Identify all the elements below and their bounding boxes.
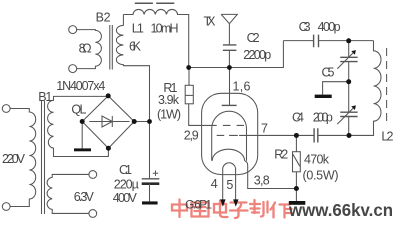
svg-text:G:6P1: G:6P1 <box>185 198 212 212</box>
junction node rail/C2/plate <box>227 65 232 70</box>
svg-text:220V: 220V <box>2 152 26 166</box>
junction node B+ <box>147 119 152 124</box>
transformer B1 HV secondary winding <box>48 96 109 156</box>
wire B+ rail <box>189 41 284 68</box>
capacitor C2 plates <box>223 45 237 50</box>
antenna TX <box>221 14 237 45</box>
tube grid g2 dashes <box>217 134 238 136</box>
heater arrow pin 5 <box>233 199 238 206</box>
svg-text:L1: L1 <box>132 22 144 36</box>
capacitor C1 plates <box>142 178 160 180</box>
char zi <box>230 203 248 219</box>
R2 inner diagonal <box>293 154 300 166</box>
tube grid g1 dashes <box>223 124 244 126</box>
svg-text:3,8: 3,8 <box>254 174 270 188</box>
char guo <box>192 203 209 217</box>
svg-text:5: 5 <box>226 178 233 192</box>
transformer B1 core <box>42 101 45 214</box>
svg-text:C5: C5 <box>322 66 335 80</box>
resistor R2 lead top <box>295 135 297 151</box>
junction node bridge bottom <box>106 146 111 151</box>
svg-text:R2: R2 <box>274 148 288 162</box>
tube plate bar <box>222 104 237 106</box>
wire R1 to grid <box>189 104 217 126</box>
transformer B2 secondary 6K <box>116 15 149 122</box>
L1 core bars <box>135 2 175 4</box>
tube heater <box>223 163 236 200</box>
tube plate pin 1,6 <box>229 68 231 106</box>
L2 dashed core <box>386 48 388 126</box>
variable capacitor C5 lower <box>348 82 350 112</box>
inductor L2 <box>349 41 381 136</box>
R1 inner bar <box>185 94 193 96</box>
junction node C3/C5/L2 top <box>346 38 351 43</box>
svg-text:400p: 400p <box>318 20 341 34</box>
svg-text:1,6: 1,6 <box>233 80 251 94</box>
ground bar C5 <box>315 95 332 98</box>
svg-text:220µ: 220µ <box>114 178 139 192</box>
svg-text:C4: C4 <box>292 111 304 125</box>
char zhong <box>172 200 187 218</box>
junction node cathode/R2 bottom <box>294 186 299 191</box>
C5 upper arrow <box>337 52 354 69</box>
svg-text:QL: QL <box>71 103 86 117</box>
svg-text:6K: 6K <box>129 40 142 54</box>
watermark chinese characters <box>172 200 292 219</box>
wire B+ vertical to C1 <box>149 122 151 179</box>
variable capacitor C5 upper <box>348 41 350 58</box>
svg-text:2200p: 2200p <box>243 48 271 62</box>
ground bar bridge <box>74 148 91 151</box>
svg-text:7: 7 <box>261 122 268 136</box>
tube beam arch <box>212 111 247 161</box>
char dian <box>214 201 228 218</box>
svg-text:B1: B1 <box>38 90 52 104</box>
junction node pin7/C4/R2 <box>294 133 299 138</box>
tube cathode dome <box>212 149 244 161</box>
svg-text:1N4007x4: 1N4007x4 <box>56 79 105 93</box>
wire C4 to tank node <box>318 134 349 136</box>
resistor R1 box <box>185 85 193 104</box>
cathode lead 3,8 <box>245 161 297 189</box>
inductor L1 10mH <box>123 9 188 67</box>
heater arrow pin 4 <box>220 199 225 206</box>
resistor R1 lead <box>188 68 190 86</box>
svg-text:8Ω: 8Ω <box>79 42 92 56</box>
C5 ground stub <box>323 82 349 95</box>
terminal circle 8ohm bottom <box>69 65 77 73</box>
char zuo <box>271 203 292 218</box>
C5 lower arrow <box>337 107 354 124</box>
resistor R2 box <box>293 152 301 172</box>
wire g2 to pin 7 <box>239 134 296 136</box>
wire C3 to node <box>319 40 374 42</box>
svg-text:200p: 200p <box>313 111 333 125</box>
junction node C5 mid <box>346 79 351 84</box>
wire bridge minus to ground <box>81 122 83 149</box>
bridge rectifier QL diamond <box>82 96 134 148</box>
terminal circle B1 primary bottom <box>2 203 10 211</box>
svg-text:3.9k: 3.9k <box>158 93 180 107</box>
junction node tank bottom <box>347 133 352 138</box>
terminal circle B1 primary top <box>2 105 10 113</box>
wire top-right rail to C3 <box>283 40 313 42</box>
junction node bridge right <box>132 119 137 124</box>
svg-text:470k: 470k <box>304 153 330 167</box>
wire pin7 node to C4 <box>296 134 313 136</box>
svg-text:4: 4 <box>211 177 218 191</box>
svg-text:C1: C1 <box>119 163 132 177</box>
capacitor C4 plates <box>314 128 318 142</box>
char zhi <box>250 200 268 217</box>
svg-text:C2: C2 <box>247 31 260 45</box>
transformer B2 core <box>110 25 113 70</box>
terminal circle 6.3V bottom <box>89 210 97 218</box>
terminal circle 8ohm top <box>69 26 77 34</box>
tube envelope <box>202 93 258 174</box>
wire R2 to ground <box>295 172 297 201</box>
svg-text:C3: C3 <box>299 20 311 34</box>
svg-text:(1W): (1W) <box>157 108 181 122</box>
svg-text:L2: L2 <box>381 130 393 144</box>
C1 plus sign <box>153 171 158 176</box>
junction node bridge top <box>106 93 111 98</box>
wire C2 to rail <box>228 50 230 67</box>
transformer B1 primary winding 220V <box>10 109 36 207</box>
svg-text:(0.5W): (0.5W) <box>303 169 339 183</box>
svg-text:TX: TX <box>204 15 217 29</box>
wire bridge plus to B+ node <box>134 121 149 123</box>
svg-text:2,9: 2,9 <box>184 129 199 143</box>
junction node bridge left <box>80 119 85 124</box>
svg-text:B2: B2 <box>96 11 111 25</box>
ground bar C1 <box>142 201 158 204</box>
terminal circle 6.3V top <box>89 171 97 179</box>
transformer B2 primary 8ohm <box>77 30 102 69</box>
svg-text:10mH: 10mH <box>151 22 179 36</box>
svg-text:6.3V: 6.3V <box>74 190 95 204</box>
ground bar R2 <box>289 201 306 205</box>
bridge diode symbol <box>89 116 129 127</box>
transformer B1 heater winding 6.3V <box>47 174 89 213</box>
wire C1 to ground <box>149 184 151 202</box>
capacitor C3 plates <box>314 35 319 48</box>
junction node rail/R1 <box>186 65 191 70</box>
svg-text:400V: 400V <box>113 191 138 205</box>
